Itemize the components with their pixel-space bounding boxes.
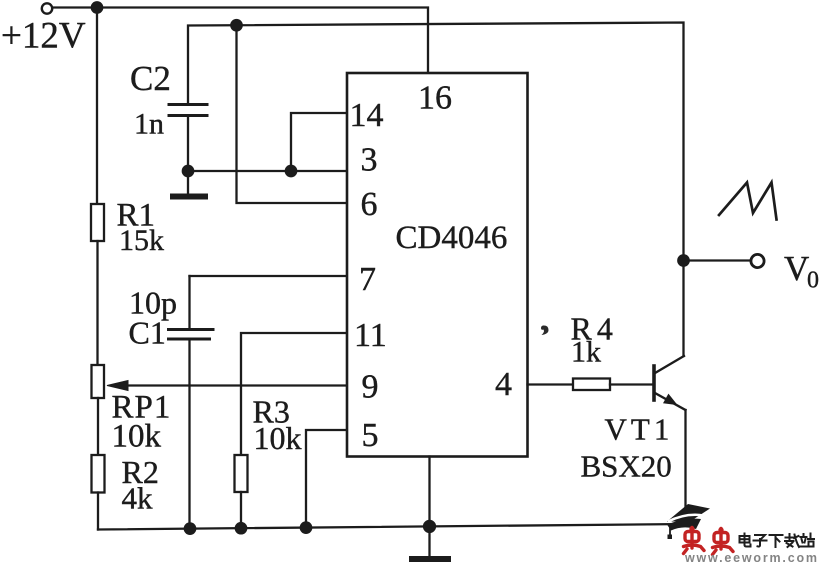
wire pin 3 (188, 170, 347, 172)
wire pin 11 (241, 333, 347, 455)
svg-text:6: 6 (361, 186, 378, 223)
svg-text:CD4046: CD4046 (396, 220, 508, 256)
node junction top rail / R1 column (92, 2, 102, 12)
wire bottom ground rail (98, 524, 686, 530)
svg-text:5: 5 (362, 417, 379, 454)
svg-text:11: 11 (354, 317, 387, 354)
hat board (667, 504, 710, 522)
svg-text:BSX20: BSX20 (581, 449, 672, 484)
RP1 wiper arrow (107, 381, 128, 391)
wire R3 bottom to rail (240, 492, 242, 528)
red bug char 2 (713, 528, 734, 555)
svg-text:15k: 15k (119, 224, 164, 257)
IC U1 CD4046 body (347, 73, 528, 457)
char zi (754, 535, 767, 547)
hat base band (667, 519, 701, 531)
svg-text:16: 16 (418, 80, 452, 117)
svg-text:4: 4 (495, 366, 512, 403)
capacitor C1 (169, 330, 214, 340)
ground below IC (412, 556, 448, 562)
wire R1 to RP1 (96, 241, 98, 365)
resistor R2 (92, 455, 105, 493)
transistor Q1 VT1 base bar (652, 366, 656, 400)
svg-text:9: 9 (362, 369, 379, 406)
black chinese text dian zi xia zai zhan (740, 534, 815, 548)
svg-text:0: 0 (807, 268, 819, 294)
svg-text:www.eeworm.com: www.eeworm.com (684, 551, 819, 563)
transistor emitter line (655, 393, 686, 410)
svg-text:1k: 1k (571, 336, 601, 369)
svg-text:3: 3 (361, 142, 378, 179)
ground below C2 (187, 171, 189, 194)
svg-text:1n: 1n (134, 108, 164, 141)
resistor R1 (91, 204, 104, 241)
wire output (684, 259, 751, 261)
svg-text:10k: 10k (112, 419, 162, 455)
node junction rail/C1 (185, 523, 195, 533)
wire RP1 to R2 (97, 398, 99, 455)
char zai (785, 534, 799, 547)
wire pin 6 (237, 25, 348, 203)
hat white stripe (668, 515, 704, 522)
resistor R3 (235, 455, 248, 492)
wire pin 9 to RP1 wiper (122, 384, 347, 386)
terminal V0 (751, 254, 764, 267)
svg-text:VT1: VT1 (605, 412, 674, 447)
char xia (770, 535, 783, 547)
hat tassel (669, 527, 671, 535)
red bug char 1 (684, 527, 705, 554)
svg-text:14: 14 (350, 97, 384, 134)
sawtooth waveform symbol (719, 183, 777, 220)
transistor emitter arrow (664, 395, 677, 405)
wire R2 bottom to rail (97, 493, 99, 530)
wire IC bottom to ground (428, 457, 430, 557)
node junction rail/IC pin 8 (424, 521, 435, 532)
capacitor C2 (169, 105, 207, 116)
wire pin 14 (291, 113, 347, 171)
svg-text:7: 7 (359, 261, 376, 298)
resistor R4 (573, 379, 610, 391)
wire R4 to base (610, 383, 653, 385)
svg-text:10k: 10k (254, 420, 302, 456)
svg-text:C2: C2 (130, 59, 171, 98)
node junction y25 / pin6 column (231, 20, 241, 30)
wire pin7 down to C1 (188, 276, 190, 329)
wire C2 bottom to pin3 net (187, 116, 189, 172)
wire R1 column top (96, 8, 98, 205)
wire pin 5 (306, 430, 347, 528)
svg-text:+12V: +12V (1, 16, 86, 57)
node output junction (678, 255, 688, 265)
comma mark near R4 (541, 325, 549, 335)
wire C1 bottom to ground rail (188, 339, 190, 529)
wire pin 4 to R4 (528, 383, 574, 385)
svg-text:C1: C1 (129, 315, 166, 351)
wire pin 7 (190, 275, 348, 277)
watermark logo eeworm (667, 504, 819, 563)
char zhan (800, 534, 814, 547)
node junction rail/R3 (236, 523, 246, 533)
transistor collector line (655, 356, 684, 373)
potentiometer RP1 (92, 365, 105, 398)
power terminal +12V (42, 3, 52, 13)
char dian (740, 534, 751, 547)
node junction C2/pin3/ground (183, 166, 193, 176)
wire top rail from +12V terminal to IC pin 16 (53, 8, 428, 74)
wire emitter to rail (684, 410, 686, 525)
node junction rail/pin5 (301, 522, 311, 532)
svg-text:4k: 4k (122, 481, 154, 516)
node junction pin3 / pin14 riser (286, 166, 296, 176)
svg-text:V: V (784, 249, 809, 288)
wire net pin6/C2/collector/V0 (horizontal y=25) (188, 23, 684, 357)
